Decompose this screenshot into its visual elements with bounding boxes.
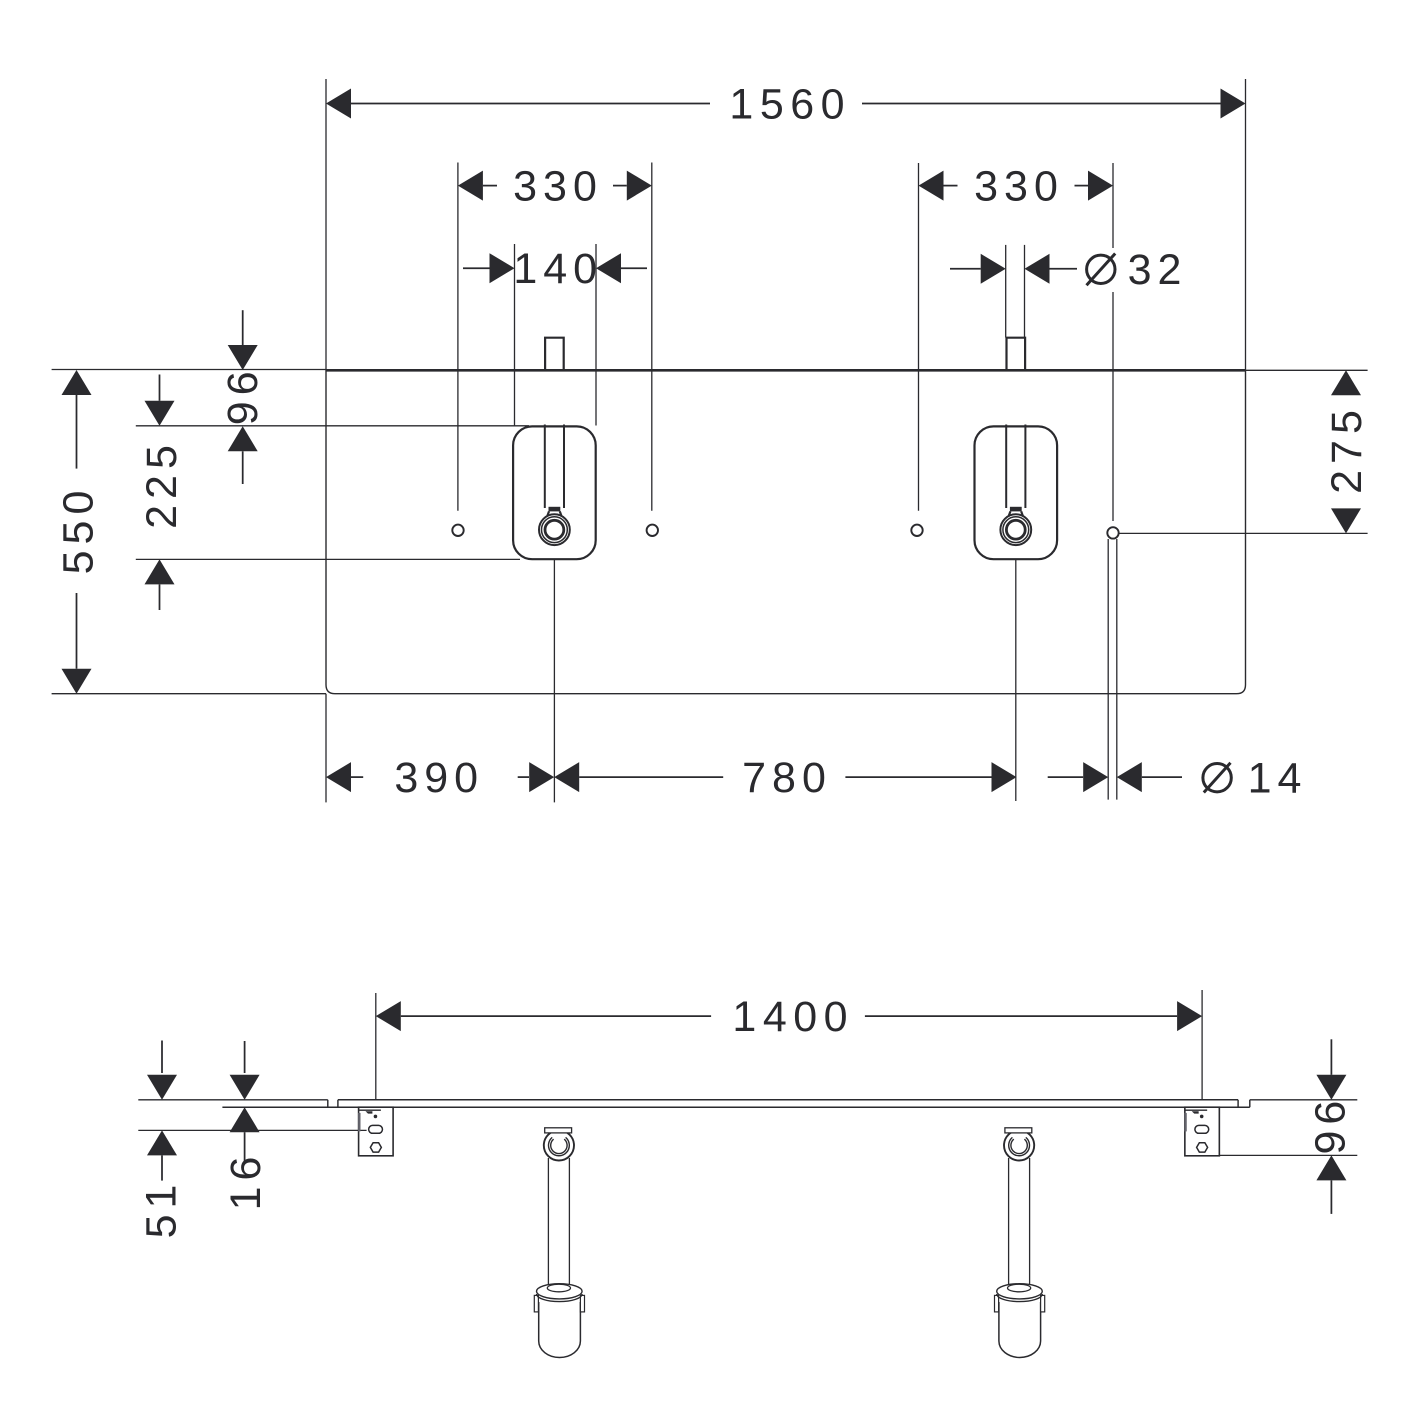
svg-text:1400: 1400 xyxy=(732,993,854,1041)
svg-text:140: 140 xyxy=(513,245,603,293)
svg-text:16: 16 xyxy=(222,1151,270,1211)
svg-text:330: 330 xyxy=(974,162,1064,210)
svg-text:330: 330 xyxy=(513,162,603,210)
svg-text:96: 96 xyxy=(1306,1095,1354,1155)
svg-text:780: 780 xyxy=(742,754,832,802)
svg-text:96: 96 xyxy=(219,365,267,425)
svg-text:225: 225 xyxy=(138,439,186,529)
svg-text:51: 51 xyxy=(137,1179,185,1239)
svg-text:1560: 1560 xyxy=(729,80,851,128)
svg-text:390: 390 xyxy=(394,754,484,802)
svg-text:32: 32 xyxy=(1128,246,1188,294)
svg-text:14: 14 xyxy=(1248,755,1308,803)
svg-text:275: 275 xyxy=(1323,404,1371,494)
svg-text:550: 550 xyxy=(54,485,102,575)
